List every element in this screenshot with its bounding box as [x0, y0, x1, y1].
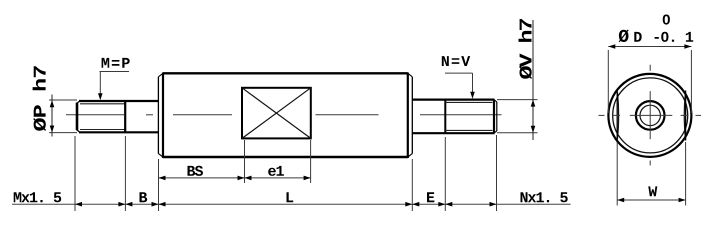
right thread start line — [444, 100, 446, 134]
end view hole circle — [636, 101, 665, 130]
dim OV arrows — [531, 100, 536, 107]
text BS — [188, 166, 204, 176]
dim OP extension lines — [49, 100, 77, 133]
text OD diameter symbol — [619, 30, 629, 43]
dim OP line — [51, 95, 53, 137]
centerline side view — [66, 114, 502, 116]
dim OD line — [608, 46, 691, 48]
end view flats — [617, 91, 685, 141]
dim e1 arrows — [245, 176, 252, 181]
chain dim line — [12, 203, 571, 205]
crossed square nut symbol — [242, 88, 311, 139]
text Mx1.5 — [14, 192, 62, 202]
dim OP arrows — [50, 100, 55, 107]
text W — [648, 186, 657, 196]
label N=V — [442, 56, 470, 66]
text B — [140, 192, 148, 202]
leader N=V — [445, 73, 473, 95]
flat-chamfer edge curve right — [684, 93, 685, 139]
dim OV h7 rotated text — [519, 19, 532, 79]
left thread root lines — [80, 104, 125, 130]
body corner bevels — [158, 73, 412, 157]
body right face — [411, 77, 413, 154]
dim e1 line — [245, 177, 311, 179]
text OD letter D — [634, 32, 641, 42]
end view chamfer ring circle — [613, 78, 688, 153]
arrow M=P — [98, 93, 103, 100]
text L — [287, 192, 294, 202]
BS/e1 extension lines — [245, 140, 311, 183]
arrow N=V — [470, 92, 475, 99]
text Nx1.5 — [521, 192, 568, 202]
body outline — [163, 73, 408, 159]
dim OD extension lines — [608, 50, 691, 113]
left shaft P outline — [76, 101, 158, 132]
dim BS arrows — [159, 176, 166, 181]
right shaft V outline — [412, 100, 497, 134]
dim W extension lines — [617, 142, 685, 206]
flat-chamfer edge curve left — [618, 93, 619, 139]
label M=P — [102, 58, 130, 68]
end view hole chamfer circle — [640, 105, 660, 125]
dim W arrows — [617, 198, 624, 203]
text OD tolerance lower — [655, 32, 694, 42]
chain arrows — [75, 202, 82, 207]
right thread root lines — [445, 102, 492, 130]
dim OV extension lines — [497, 100, 538, 133]
dim OV line — [532, 20, 534, 140]
end view outer circle — [608, 74, 691, 157]
dim W line — [617, 199, 685, 201]
dim BS line — [159, 177, 245, 179]
dim OP h7 rotated text — [33, 66, 46, 131]
dim OD arrows — [608, 44, 615, 49]
text E — [427, 192, 434, 202]
text OD tolerance upper 0 — [663, 15, 670, 25]
text e1 — [268, 166, 284, 176]
leader M=P — [100, 72, 130, 97]
left thread end line — [124, 101, 126, 132]
end view centerlines — [599, 65, 702, 166]
body left face — [157, 77, 159, 154]
chain extension lines — [75, 135, 497, 211]
